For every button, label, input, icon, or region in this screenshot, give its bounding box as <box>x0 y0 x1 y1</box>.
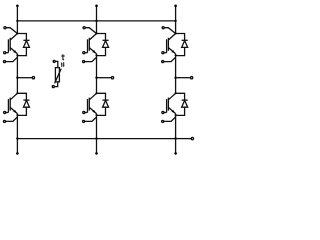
terminal: DC- stub 2 with solder dot <box>95 139 98 155</box>
freewheeling diode D2 <box>23 100 29 107</box>
auxiliary emitter terminal of Q4 <box>83 117 97 122</box>
wire: leg 2 midpoint vertical <box>96 54 98 94</box>
wire: leg 2 emitter drop to bottom bus <box>96 114 98 139</box>
wire: phase U output lead <box>17 77 32 79</box>
wire: diode branch of D3 <box>97 34 106 56</box>
gate terminal of Q2 <box>4 111 9 113</box>
wire: leg 1 collector drop <box>16 21 18 34</box>
node: emitter junction of Q3 <box>95 54 97 56</box>
node: emitter junction of Q6 <box>175 114 177 116</box>
node: emitter junction of Q5 <box>175 54 177 56</box>
freewheeling diode D3 <box>103 40 109 47</box>
IGBT Q1 <box>8 34 17 54</box>
wire: diode branch of D6 <box>176 93 185 115</box>
terminal: DC- stub 1 with solder dot <box>16 139 19 155</box>
freewheeling diode D6 <box>182 100 188 107</box>
wire: leg 1 emitter drop to bottom bus <box>16 114 18 139</box>
label: temperature t with arrows <box>61 54 65 67</box>
auxiliary emitter terminal of Q6 <box>162 117 176 122</box>
auxiliary emitter terminal of Q2 <box>3 117 17 122</box>
gate terminal of Q5 <box>162 52 167 54</box>
wire: leg 3 midpoint vertical <box>175 54 177 94</box>
wire: diode branch of D2 <box>17 93 26 115</box>
node: collector junction of Q4 <box>95 92 97 94</box>
auxiliary emitter terminal of Q1 <box>3 57 17 62</box>
freewheeling diode D4 <box>103 100 109 107</box>
terminal: phase V output circle <box>111 77 113 79</box>
IGBT Q5 <box>167 34 176 54</box>
node: emitter junction of Q2 <box>16 114 18 116</box>
node: phase V tap junction <box>95 77 97 79</box>
node: phase W tap junction <box>174 77 176 79</box>
wire: bottom rail extension to DC- terminal <box>176 138 192 140</box>
gate terminal of Q6 <box>162 111 167 113</box>
node: top bus junction leg 2 <box>95 20 97 22</box>
node: top bus junction leg 1 <box>16 20 18 22</box>
node: collector junction of Q6 <box>175 92 177 94</box>
terminal: NTC thermistor bottom pin <box>52 82 57 88</box>
terminal: DC- stub 3 with solder dot <box>174 139 177 155</box>
wire: phase W output lead <box>176 77 191 79</box>
terminal: DC+ stub 2 with solder dot <box>95 5 98 21</box>
terminal: DC+ stub 1 with solder dot <box>16 5 19 21</box>
auxiliary emitter terminal of Q5 <box>162 57 176 62</box>
wire: diode branch of D1 <box>17 34 26 56</box>
node: top bus junction leg 3 <box>174 20 176 22</box>
wire: negative DC bus (bottom rail) <box>17 138 175 140</box>
wire: leg 3 emitter drop to bottom bus <box>175 114 177 139</box>
IGBT Q3 <box>88 34 97 54</box>
IGBT Q4 <box>88 93 97 113</box>
auxiliary collector terminal of Q3 <box>83 27 96 34</box>
wire: leg 3 collector drop <box>175 21 177 34</box>
freewheeling diode D1 <box>23 40 29 47</box>
terminal: phase U output circle <box>32 77 34 79</box>
node: collector junction of Q3 <box>95 32 97 34</box>
node: collector junction of Q5 <box>175 32 177 34</box>
wire: phase V output lead <box>97 77 112 79</box>
terminal: NTC thermistor top pin <box>53 60 58 67</box>
node: phase U tap junction <box>16 77 18 79</box>
IGBT Q6 <box>167 93 176 113</box>
auxiliary collector terminal of Q5 <box>162 27 175 34</box>
thermistor R1 (NTC) body <box>55 68 62 84</box>
wire: positive DC bus (top rail) <box>17 20 175 22</box>
node: bottom bus junction leg 1 <box>16 137 18 139</box>
auxiliary emitter terminal of Q3 <box>83 57 97 62</box>
freewheeling diode D5 <box>182 40 188 47</box>
node: bottom bus junction leg 2 <box>95 137 97 139</box>
terminal: DC- output circle <box>191 137 193 139</box>
terminal: DC+ stub 3 with solder dot <box>174 5 177 21</box>
gate terminal of Q3 <box>83 52 88 54</box>
wire: leg 1 midpoint vertical <box>16 54 18 94</box>
wire: diode branch of D4 <box>97 93 106 115</box>
IGBT Q2 <box>8 93 17 113</box>
node: emitter junction of Q1 <box>16 54 18 56</box>
terminal: phase W output circle <box>190 77 192 79</box>
node: bottom bus junction leg 3 <box>174 137 176 139</box>
node: collector junction of Q1 <box>16 32 18 34</box>
node: collector junction of Q2 <box>16 92 18 94</box>
gate terminal of Q4 <box>83 111 88 113</box>
auxiliary collector terminal of Q1 <box>4 27 17 34</box>
node: emitter junction of Q4 <box>95 114 97 116</box>
wire: leg 2 collector drop <box>96 21 98 34</box>
gate terminal of Q1 <box>4 52 9 54</box>
wire: diode branch of D5 <box>176 34 185 56</box>
